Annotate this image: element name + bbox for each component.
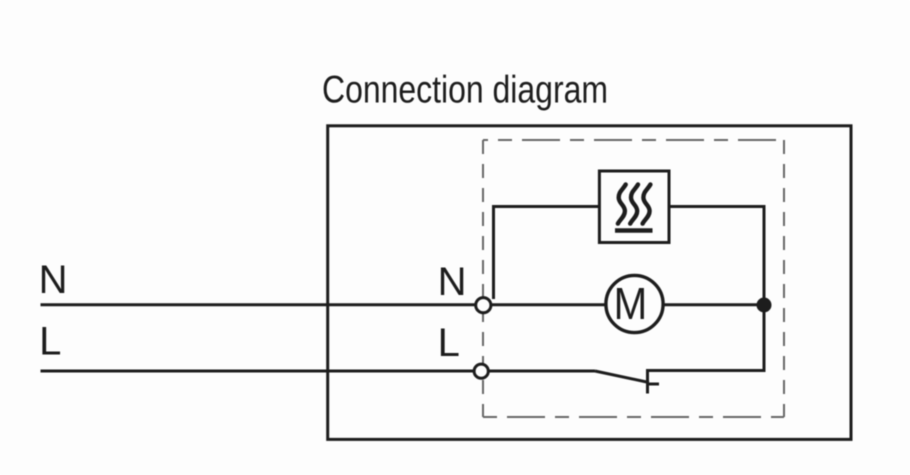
dashed appliance boundary box	[483, 140, 784, 417]
heater wavy lines	[618, 185, 651, 224]
wire: heater to right bus	[669, 205, 766, 208]
L terminal (open circle)	[474, 364, 488, 378]
wire: L supply line	[41, 370, 596, 373]
svg-text:M: M	[614, 278, 648, 329]
svg-text:L: L	[438, 321, 460, 365]
motor M circle	[606, 275, 663, 332]
wire: riser from N terminal to heater branch	[494, 207, 600, 300]
svg-text:N: N	[438, 260, 467, 304]
junction node (filled)	[757, 298, 772, 313]
switch blade	[595, 371, 649, 383]
wire: N supply line	[41, 303, 635, 306]
heater element box	[599, 171, 669, 243]
svg-text:L: L	[39, 319, 61, 363]
outer enclosure box	[328, 126, 851, 440]
switch contact tick	[648, 383, 660, 386]
switch contact post	[646, 369, 649, 394]
wire: right bus down and to switch	[648, 207, 765, 371]
svg-text:Connection diagram: Connection diagram	[322, 68, 608, 111]
wire: motor to junction	[634, 303, 764, 306]
N terminal (open circle)	[476, 298, 491, 313]
svg-text:N: N	[39, 258, 68, 302]
heater base bar	[615, 228, 653, 233]
